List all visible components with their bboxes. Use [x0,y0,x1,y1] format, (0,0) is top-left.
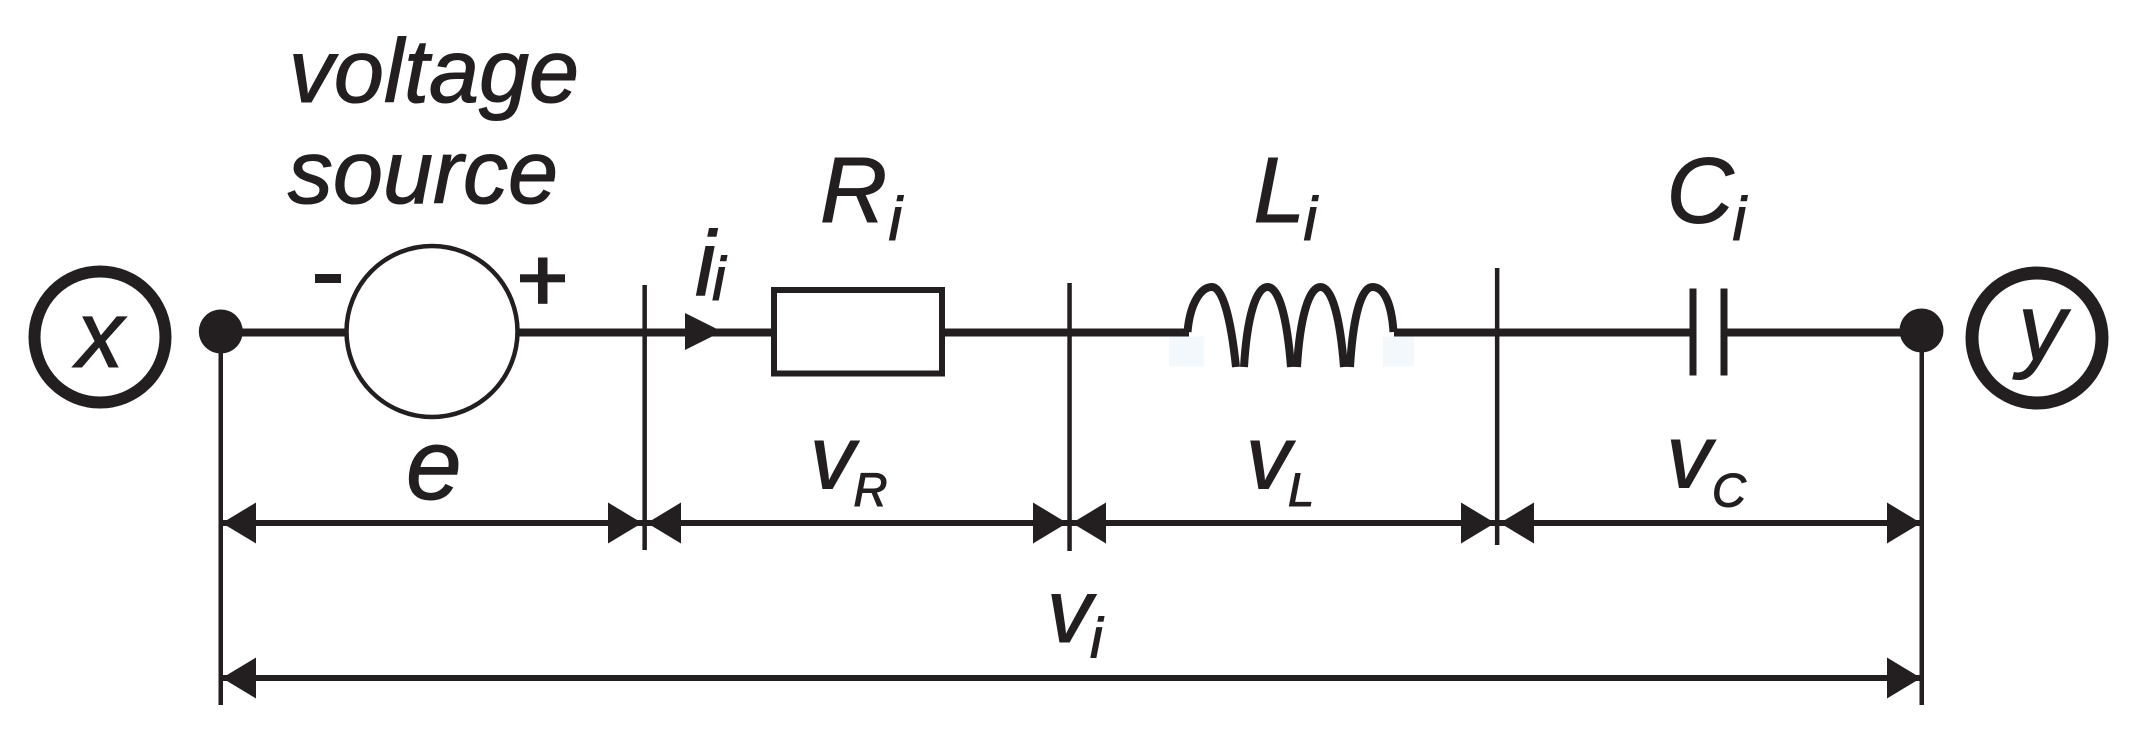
dimension arrowhead pair at x=645 [608,503,681,544]
svg-text:i: i [1304,185,1319,253]
wire inductor to capacitor [1394,329,1690,337]
extension line between resistor and inductor (x=1070) [1067,283,1072,551]
svg-text:L: L [1288,463,1314,516]
extension line from node B [1920,352,1925,705]
label Ci [1667,139,1748,254]
label "voltage source" [288,22,579,223]
node B (right junction dot) [1900,309,1944,353]
svg-text:i: i [889,185,904,253]
background artifact patch right of inductor [1383,337,1414,367]
extension line at node after source (x=645) [642,285,647,550]
wire resistor to inductor [945,329,1189,337]
capacitor Ci plate 1 [1690,289,1697,376]
svg-text:i: i [712,245,727,313]
extension line between inductor and capacitor (x=1496) [1495,268,1500,545]
svg-text:source: source [288,123,558,223]
dimension arrowhead pair at x=1496 [1461,503,1534,544]
label voltage source minus sign [315,274,341,283]
svg-text:i: i [1090,607,1104,671]
label vi [1047,562,1104,671]
svg-text:y: y [2012,275,2071,381]
background artifact patch left of inductor [1169,337,1204,367]
label vR [810,409,887,517]
terminal circle y [1972,273,2102,403]
svg-text:C: C [1667,139,1735,243]
svg-text:x: x [72,282,127,388]
svg-text:i: i [1733,185,1748,253]
dimension arrowhead vi left [222,658,256,699]
svg-text:e: e [406,409,462,521]
wire node A to voltage source [220,329,347,337]
svg-text:C: C [1712,464,1747,517]
label Li [1254,138,1319,253]
capacitor Ci plate 2 [1721,289,1728,376]
resistor Ri [774,290,942,374]
svg-text:v: v [810,409,860,509]
label vC [1667,408,1748,517]
node A (left junction dot) [199,310,243,354]
dimension line vi [222,675,1921,681]
svg-text:voltage: voltage [289,22,579,122]
svg-text:R: R [854,463,888,516]
dimension arrowhead right at node B line [1887,503,1921,544]
dimension line e / vR / vL / vC [222,520,1921,526]
label current i_i [695,213,727,315]
dimension arrowhead pair at x=1070 [1033,503,1106,544]
extension line from node A [219,330,224,705]
label voltage source plus sign [520,258,565,304]
svg-text:L: L [1254,138,1306,242]
label vL [1246,409,1314,517]
voltage source E [347,246,518,417]
dimension arrowhead vi right [1887,658,1921,699]
svg-text:v: v [1667,408,1717,508]
inductor Li [1188,287,1394,367]
current direction arrowhead [685,313,722,350]
wire voltage source to resistor [519,329,771,337]
label Ri [820,138,904,253]
terminal circle x [35,272,166,403]
svg-text:R: R [820,138,887,242]
wire capacitor to node B [1728,329,1923,337]
dimension arrowhead left at node A line [222,503,256,544]
